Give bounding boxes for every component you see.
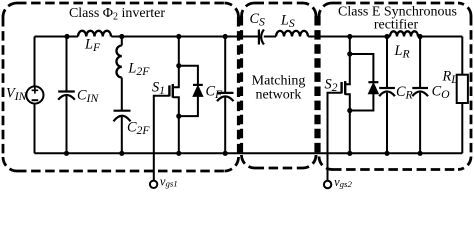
svg-text:Class Φ2 inverter: Class Φ2 inverter — [69, 6, 165, 23]
svg-text:rectifier: rectifier — [374, 18, 419, 33]
svg-text:Matching: Matching — [252, 74, 306, 89]
svg-text:network: network — [256, 88, 302, 103]
